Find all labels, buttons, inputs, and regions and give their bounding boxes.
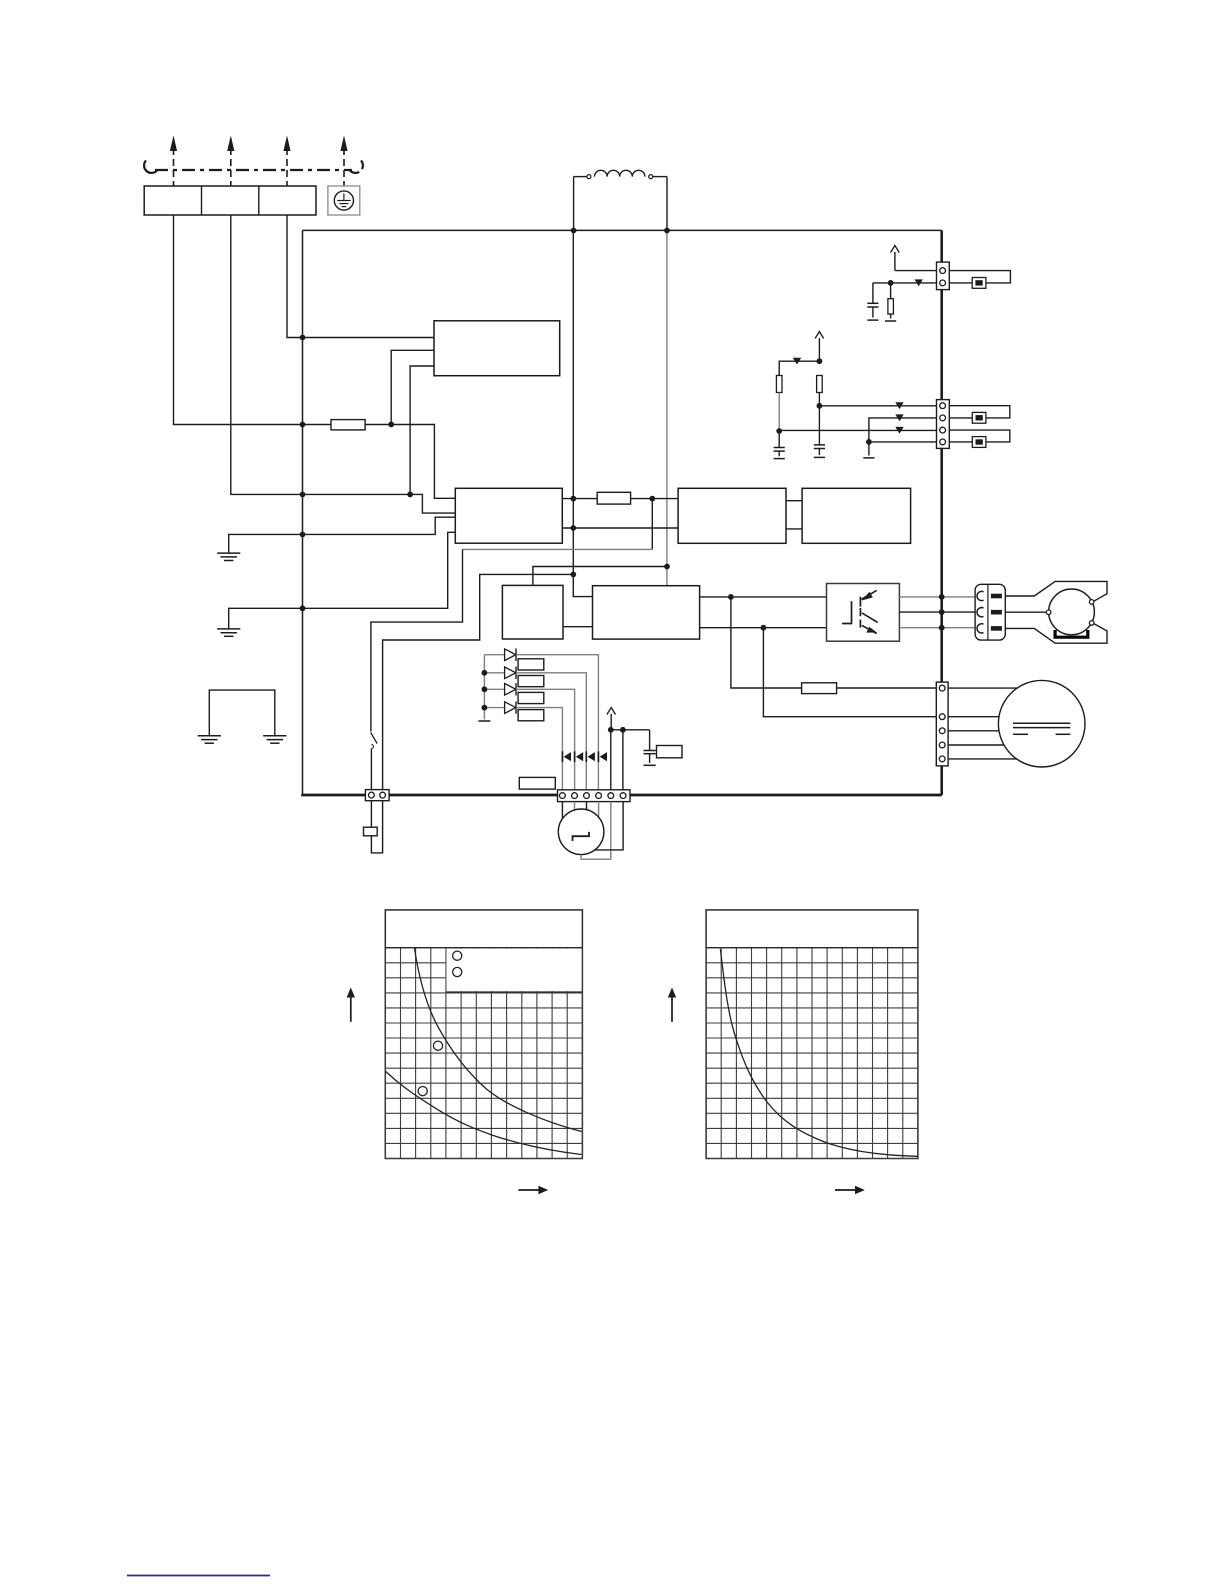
wire link lower	[786, 528, 802, 530]
protective earth terminal	[328, 186, 360, 215]
capacitor C4	[644, 730, 656, 766]
supply lead arrow 3	[283, 136, 290, 187]
wire pull-up top link	[779, 361, 819, 375]
LED D2 wire to connector	[516, 673, 586, 790]
wire CN6 pin3 to sensor	[586, 802, 588, 810]
wire fan control	[763, 628, 936, 717]
wire R3 lower	[818, 393, 820, 406]
wire link upper	[786, 500, 802, 502]
LED D3 wire to connector	[516, 689, 575, 789]
diode D at x=574.6	[575, 751, 584, 762]
chart 2 y-axis arrow	[668, 988, 676, 1022]
PCB outline right edge	[940, 230, 943, 795]
chart 1 x-axis arrow	[518, 1186, 548, 1194]
noise filter block U1	[434, 321, 560, 376]
connector CN2 3P	[975, 584, 1005, 640]
junction dots	[300, 228, 945, 733]
chart 1 y-axis arrow	[347, 988, 355, 1022]
LED D2	[484, 667, 516, 679]
wire CN6 pin1 to sensor	[561, 802, 563, 819]
bonding double ground	[198, 690, 287, 743]
resistor R3	[817, 376, 823, 393]
fuse F2	[597, 492, 630, 504]
wire filter output to PSU	[410, 366, 434, 494]
PCB outline top edge	[303, 229, 942, 231]
wire inverter drive lower	[700, 627, 827, 629]
wire R2 lower	[778, 393, 780, 432]
wire TH1 to pin2	[949, 282, 972, 284]
wire DC return line	[562, 527, 678, 529]
wire sensor row 4	[869, 441, 937, 443]
wire CN6 pin2 to sensor	[574, 802, 576, 810]
resistor R1	[885, 283, 896, 321]
wire compressor W phase	[1005, 624, 1107, 644]
wire protector return	[383, 574, 574, 789]
footer rule	[127, 1575, 270, 1577]
supply lead arrow 4	[340, 136, 347, 187]
wire fan motor leads	[948, 688, 1017, 759]
LED label box 3	[518, 692, 544, 703]
LED D1	[484, 649, 516, 661]
LED label box 4	[518, 710, 544, 721]
ground for rows 2/4	[863, 442, 874, 458]
connector CN1 2P	[365, 790, 389, 801]
thermistor TH1 loop	[949, 271, 1010, 283]
fuse F1	[331, 420, 365, 430]
compressor motor MC	[1046, 589, 1094, 635]
LED D1 wire to connector	[516, 655, 598, 790]
wire protector feed	[371, 499, 652, 732]
fuse F3	[802, 683, 837, 694]
wire CN6 pin5 loop	[581, 802, 611, 860]
LED label box 2	[518, 676, 544, 687]
+V arrow top right	[891, 246, 900, 271]
capacitor C2	[774, 431, 785, 459]
reactor L1	[574, 170, 667, 178]
thermistor TH3 loop	[949, 430, 1010, 442]
LED D4 wire to connector	[516, 708, 562, 790]
wire pin6 drop	[622, 730, 624, 790]
terminal block TB1	[144, 186, 316, 215]
LED label box 1	[518, 659, 544, 670]
chart 2 x-axis arrow	[835, 1186, 865, 1194]
supply lead arrow 2	[227, 136, 234, 187]
capacitor C3	[814, 406, 825, 458]
wire neutral line	[303, 494, 456, 513]
IC block U5	[502, 585, 563, 639]
PCB outline left edge	[302, 230, 304, 795]
filter capacitor C1	[867, 283, 878, 320]
polarity mark	[793, 358, 801, 365]
wire sensor pull-up	[895, 270, 937, 272]
wire fan supply with fuse	[731, 597, 802, 688]
wire fan supply right	[837, 687, 937, 689]
wire bottom supply	[611, 729, 650, 731]
wire DC fuse line right	[631, 498, 679, 500]
thermistor TH2	[972, 412, 986, 423]
wire from terminal 1 to fuse line	[174, 215, 303, 425]
wire TH2 to pin2	[949, 417, 972, 419]
connector CN4 2P	[937, 262, 950, 290]
wire inverter drive upper	[700, 596, 827, 598]
chassis ground 1	[217, 534, 302, 560]
capacitor C4 label box	[657, 746, 683, 758]
+V arrow mid right	[815, 332, 824, 362]
wire PSU ground return	[303, 532, 456, 608]
wire gray bus to control block	[666, 231, 668, 586]
LED D3	[484, 683, 516, 695]
wire sensor row 3	[779, 429, 936, 431]
wire CN6 pin4 to sensor	[598, 802, 600, 818]
wire CN6 pin6 loop	[595, 802, 623, 850]
wire TH3 to pin4	[949, 441, 972, 443]
wire reactor left leg	[573, 177, 575, 231]
connector CN5 4P	[937, 400, 950, 449]
wire filter input 1	[303, 337, 435, 339]
overload protector OLP	[364, 827, 378, 836]
+V arrow bottom	[607, 708, 616, 730]
wire filter input 2	[391, 350, 434, 424]
chassis ground 2	[217, 608, 302, 636]
wire sensor signal	[873, 282, 937, 284]
wire fuse line left	[303, 424, 332, 426]
PCB outline bottom edge	[301, 794, 942, 797]
wire compressor U phase	[1005, 581, 1107, 601]
thermistor TH2 loop	[949, 406, 1010, 418]
wire module output W	[899, 627, 975, 629]
wire sensor row 2	[869, 418, 937, 442]
wire sensor row 1	[819, 405, 936, 407]
power supply block U2	[455, 488, 562, 543]
wire U5-U6 link	[563, 626, 593, 628]
overload protector loop	[371, 801, 382, 853]
resistor R2	[776, 376, 782, 393]
supply lead arrow 1	[170, 136, 177, 187]
wire reactor right leg	[666, 177, 668, 231]
polarity marks rows	[895, 402, 903, 409]
fan motor MF	[998, 680, 1085, 767]
wire module output U	[899, 596, 975, 598]
wire compressor V phase	[1005, 611, 1046, 613]
diode D at x=598.4	[598, 751, 607, 762]
smoothing block U4	[802, 488, 911, 543]
diode D at x=586.3	[586, 751, 595, 762]
LED D4	[484, 701, 516, 713]
wire from terminal 3	[287, 215, 303, 338]
thermistor chart 2	[706, 910, 918, 1159]
connector CN6 label box	[519, 777, 555, 789]
wire earth line	[303, 517, 456, 534]
polarity mark	[915, 279, 923, 286]
wire fuse line right	[365, 425, 455, 499]
microcomputer block U6	[593, 586, 700, 639]
wire from terminal 2	[231, 215, 303, 494]
wire pin5 drop	[610, 730, 612, 790]
wire main DC bus vertical	[573, 231, 592, 597]
LED bus	[478, 655, 490, 721]
wire DC fuse line	[562, 498, 597, 500]
power module U7	[827, 584, 900, 642]
thermostat sensor RT	[558, 809, 604, 855]
connector CN3 5P	[936, 682, 948, 766]
connector CN6 6P	[558, 790, 631, 802]
diode D at x=562.4	[562, 751, 571, 762]
thermistor chart 1	[385, 910, 582, 1159]
wire module output V	[899, 611, 975, 613]
switch S1 (open)	[371, 733, 378, 790]
thermistor TH3	[972, 437, 986, 448]
cable boundary dash-dot line	[144, 161, 363, 173]
crankcase heater	[1055, 630, 1088, 637]
thermistor TH1	[972, 278, 986, 289]
rectifier block U3	[678, 488, 786, 543]
wire logic supply	[533, 567, 667, 586]
